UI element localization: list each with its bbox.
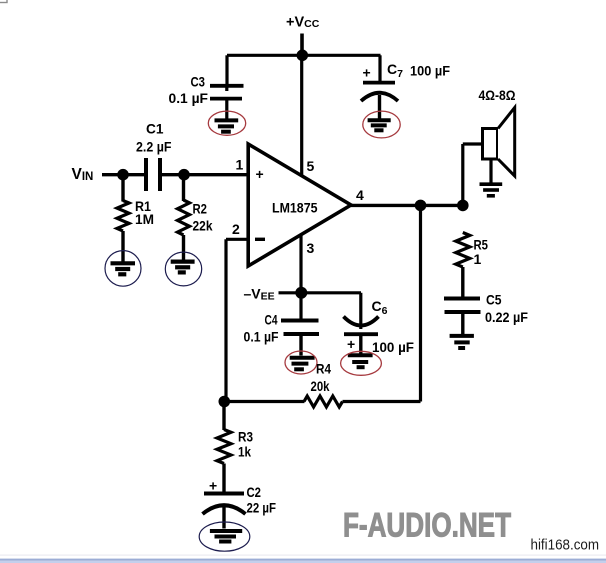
blue ellipse around C2 ground xyxy=(199,522,250,551)
wire feedback bottom right xyxy=(343,400,421,403)
wire C7 drop xyxy=(378,55,381,82)
svg-text:20k: 20k xyxy=(311,378,330,394)
red ellipse around C4 ground xyxy=(285,351,317,374)
svg-text:22k: 22k xyxy=(193,218,213,234)
ground under R2 xyxy=(171,262,195,273)
svg-text:C2: C2 xyxy=(247,484,262,500)
junction VEE node xyxy=(295,287,307,299)
svg-text:R4: R4 xyxy=(316,361,331,377)
wire VEE horizontal xyxy=(279,291,362,294)
svg-text:+: + xyxy=(256,166,264,182)
capacitor C7 (electrolytic) xyxy=(361,83,398,119)
wire speaker horizontal xyxy=(463,142,484,145)
resistor R2 xyxy=(178,200,190,235)
svg-text:1: 1 xyxy=(236,157,244,173)
svg-text:100 µF: 100 µF xyxy=(372,339,414,355)
svg-text:1M: 1M xyxy=(135,211,154,227)
scan artifact top-left xyxy=(0,0,7,3)
resistor R4 xyxy=(304,396,343,407)
wire pin5 vertical xyxy=(300,55,303,179)
svg-text:0.1 µF: 0.1 µF xyxy=(169,90,209,106)
wire output to feedback vertical xyxy=(419,205,422,401)
svg-text:2.2 µF: 2.2 µF xyxy=(136,139,172,155)
svg-text:4: 4 xyxy=(356,187,364,203)
junction node after C1 xyxy=(178,169,190,181)
wire R1 lower xyxy=(121,231,124,262)
resistor R3 xyxy=(217,430,231,464)
wire speaker ground stem xyxy=(489,159,492,183)
svg-text:C1: C1 xyxy=(146,121,164,137)
speaker LS1 cone xyxy=(498,108,515,177)
wire pin2 horizontal xyxy=(226,238,249,241)
blue ellipse around R2 ground xyxy=(165,252,201,286)
capacitor C2 (electrolytic) xyxy=(203,494,246,529)
bottom blue bar xyxy=(0,555,606,556)
ground under C2 xyxy=(210,531,242,542)
ground under C3 xyxy=(215,120,239,131)
wire C5 ground stem xyxy=(461,312,464,334)
junction output node A xyxy=(415,200,427,212)
resistor R5 xyxy=(456,233,470,268)
junction input node xyxy=(117,169,129,181)
wire R5 lower xyxy=(461,267,464,297)
red ellipse around C6 ground xyxy=(341,351,382,375)
svg-text:22 µF: 22 µF xyxy=(247,500,277,516)
ground under speaker xyxy=(480,184,503,196)
wire C6 drop xyxy=(359,293,362,329)
svg-text:100 µF: 100 µF xyxy=(410,63,450,79)
ground under C7 xyxy=(368,120,391,130)
red ellipse around C3 ground xyxy=(208,111,245,135)
blue ellipse around R1 ground xyxy=(105,251,141,287)
capacitor C4 xyxy=(281,321,319,335)
wire C3 drop xyxy=(225,55,228,86)
svg-text:LM1875: LM1875 xyxy=(272,200,318,216)
label op-amp minus input xyxy=(255,238,265,241)
wire R2 lower xyxy=(182,235,185,260)
speaker LS1 driver box xyxy=(483,129,498,160)
wire VCC stub xyxy=(300,34,304,56)
svg-text:3: 3 xyxy=(307,240,315,256)
wire C4 drop xyxy=(299,293,302,320)
ground under R1 xyxy=(111,263,136,274)
capacitor C3 xyxy=(210,86,244,120)
wire R3 top xyxy=(222,402,225,431)
capacitor C6 (electrolytic) xyxy=(344,317,379,354)
wire feedback vertical xyxy=(224,239,227,401)
svg-text:0.22 µF: 0.22 µF xyxy=(485,309,528,325)
wire pin3 vertical xyxy=(299,233,302,293)
svg-text:+: + xyxy=(347,336,355,352)
svg-text:1: 1 xyxy=(474,251,482,267)
svg-text:+: + xyxy=(209,478,217,494)
svg-text:5: 5 xyxy=(307,158,315,174)
junction feedback node xyxy=(219,396,231,408)
wire R1 upper xyxy=(121,175,124,202)
svg-text:0.1 µF: 0.1 µF xyxy=(244,329,279,345)
svg-text:C3: C3 xyxy=(191,74,206,90)
resistor R1 xyxy=(117,201,129,232)
svg-text:F-AUDIO.NET: F-AUDIO.NET xyxy=(343,507,511,545)
wire R3 lower xyxy=(222,464,225,493)
svg-text:+: + xyxy=(363,65,371,81)
ground under C4 xyxy=(290,358,315,370)
svg-text:C5: C5 xyxy=(486,292,502,308)
ground under C5 xyxy=(450,336,474,348)
ground under C6 xyxy=(348,355,373,367)
capacitor C5 xyxy=(444,299,481,313)
wire VCC rail xyxy=(227,54,381,57)
wire C4 ground stem xyxy=(299,334,302,356)
svg-text:C4: C4 xyxy=(265,312,278,328)
svg-text:4Ω-8Ω: 4Ω-8Ω xyxy=(479,87,516,103)
wire input left xyxy=(102,173,146,176)
op-amp U1 LM1875 triangle xyxy=(248,144,351,266)
wire R2 upper xyxy=(182,175,185,201)
junction output node B xyxy=(457,200,469,212)
junction VCC node xyxy=(297,50,309,62)
wire feedback bottom left xyxy=(224,400,305,403)
svg-text:2: 2 xyxy=(232,221,240,237)
wire C1 to pin1 xyxy=(160,173,249,176)
capacitor C1 xyxy=(146,158,160,191)
svg-text:R2: R2 xyxy=(193,201,208,217)
wire output horizontal xyxy=(351,204,465,207)
red ellipse around C7 ground xyxy=(363,111,400,138)
svg-text:hifi168.com: hifi168.com xyxy=(531,538,600,554)
svg-text:R3: R3 xyxy=(238,429,253,445)
svg-text:1k: 1k xyxy=(238,444,251,460)
wire speaker vertical xyxy=(461,144,464,205)
